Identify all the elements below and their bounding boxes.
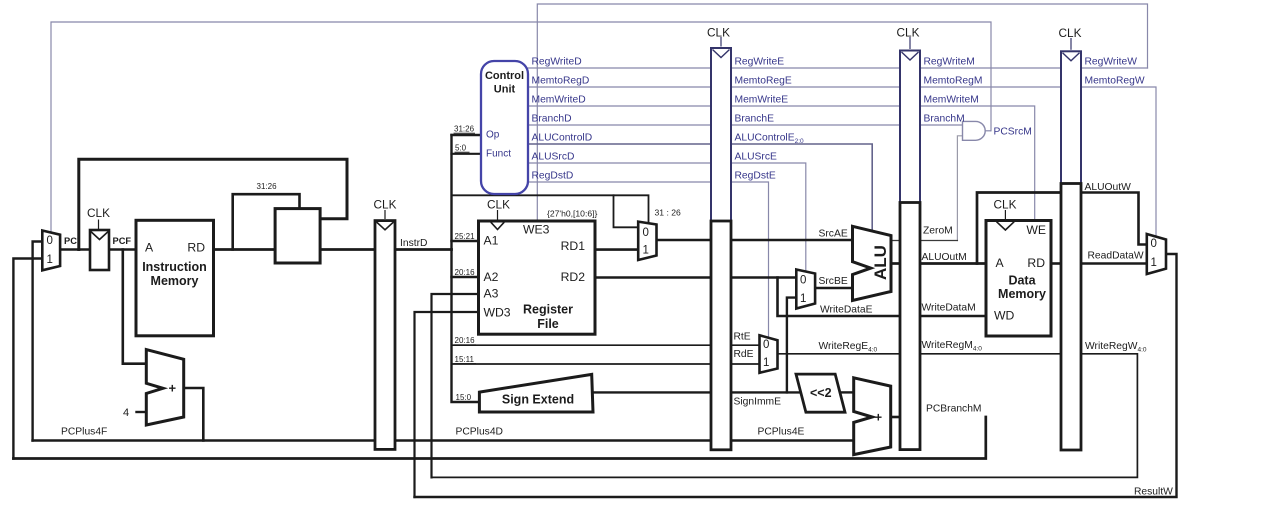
svg-text:MemtoRegM: MemtoRegM bbox=[924, 76, 983, 87]
svg-text:Funct: Funct bbox=[486, 149, 511, 160]
svg-text:Register: Register bbox=[523, 303, 573, 317]
svg-text:ALUOutM: ALUOutM bbox=[922, 252, 967, 263]
svg-text:1: 1 bbox=[800, 293, 806, 305]
wire PCBranchM long return bbox=[13, 417, 985, 459]
svg-text:15:11: 15:11 bbox=[455, 355, 475, 364]
svg-text:A1: A1 bbox=[484, 234, 499, 248]
wire BranchE bbox=[731, 124, 900, 126]
block Data Memory bbox=[986, 221, 1051, 337]
svg-text:PCF: PCF bbox=[113, 236, 132, 246]
svg-text:RtE: RtE bbox=[734, 332, 751, 343]
pipeline register EX/MEM control section bbox=[900, 51, 920, 203]
mux SrcB bbox=[796, 270, 815, 309]
svg-text:ALUControlE2:0: ALUControlE2:0 bbox=[735, 133, 805, 146]
wire InstrD bbox=[395, 248, 452, 251]
svg-text:ALUSrcD: ALUSrcD bbox=[532, 152, 575, 163]
svg-text:Instruction: Instruction bbox=[142, 260, 207, 274]
svg-text:MemWriteE: MemWriteE bbox=[735, 95, 789, 106]
wire ALUOutE bbox=[891, 262, 900, 265]
svg-text:<<2: <<2 bbox=[810, 386, 832, 400]
svg-text:20:16: 20:16 bbox=[455, 268, 476, 277]
svg-text:1: 1 bbox=[1151, 257, 1157, 269]
svg-text:CLK: CLK bbox=[487, 198, 510, 212]
wire ALUOutM to Data Memory A bbox=[920, 262, 986, 265]
svg-text:PCBranchM: PCBranchM bbox=[926, 404, 982, 415]
wire instruction to IF/ID register bbox=[320, 248, 375, 251]
svg-text:0: 0 bbox=[800, 275, 806, 287]
svg-text:MemtoRegW: MemtoRegW bbox=[1085, 76, 1145, 87]
adder PC plus 4 bbox=[146, 350, 183, 425]
svg-text:ReadDataW: ReadDataW bbox=[1088, 251, 1144, 262]
wire MemtoRegE bbox=[731, 86, 900, 88]
svg-text:0: 0 bbox=[47, 235, 53, 247]
pipeline register MEM/WB control section bbox=[1061, 51, 1081, 183]
block Control Unit bbox=[481, 61, 528, 194]
wire BranchM to AND gate bbox=[920, 124, 963, 126]
svg-text:4: 4 bbox=[123, 407, 129, 419]
svg-text:CLK: CLK bbox=[897, 26, 920, 40]
svg-text:Unit: Unit bbox=[494, 84, 516, 96]
wire branch adder output PCBranch bbox=[891, 416, 900, 419]
svg-text:RegWriteW: RegWriteW bbox=[1085, 57, 1138, 68]
wire MemtoRegD bbox=[528, 86, 711, 88]
wire RtE to RegDst mux input 0 bbox=[731, 344, 760, 346]
svg-text:Data: Data bbox=[1008, 274, 1036, 288]
svg-text:Memory: Memory bbox=[998, 287, 1046, 301]
wire WriteRegE bbox=[778, 353, 901, 355]
wire ReadDataW to result mux input 1 bbox=[1081, 262, 1147, 265]
shifter left 2 bbox=[796, 374, 845, 412]
svg-text:BranchM: BranchM bbox=[924, 114, 965, 125]
wire 31:26 slice loop bbox=[233, 194, 300, 249]
wire PCPlus4F to PC mux input 0 bbox=[33, 242, 43, 441]
svg-text:WE3: WE3 bbox=[523, 223, 550, 237]
wire shamt select line bbox=[452, 195, 649, 222]
wire A3 from WriteRegW riser bbox=[432, 294, 479, 477]
block Register File bbox=[479, 221, 596, 334]
svg-text:WD3: WD3 bbox=[484, 306, 511, 320]
wire WriteDataE tap bbox=[778, 278, 901, 317]
wire SrcBE from mux to ALU bbox=[815, 287, 852, 290]
svg-text:A3: A3 bbox=[484, 287, 499, 301]
svg-text:MemWriteM: MemWriteM bbox=[924, 95, 979, 106]
svg-text:31 : 26: 31 : 26 bbox=[655, 208, 682, 218]
block Sign Extend bbox=[479, 374, 593, 412]
mux RegDst bbox=[760, 335, 778, 373]
svg-text:ALUSrcE: ALUSrcE bbox=[735, 152, 777, 163]
wire RegWriteW top return (blue) bbox=[537, 4, 1147, 221]
svg-text:RegWriteM: RegWriteM bbox=[924, 57, 975, 68]
svg-text:1: 1 bbox=[643, 245, 649, 257]
pipeline register IF/ID bbox=[375, 221, 395, 450]
svg-text:1: 1 bbox=[763, 357, 769, 369]
pipeline register ID/EX control section bbox=[711, 48, 731, 221]
svg-text:WriteDataE: WriteDataE bbox=[820, 305, 873, 316]
svg-text:15:0: 15:0 bbox=[456, 393, 472, 402]
svg-text:SignImmE: SignImmE bbox=[734, 397, 782, 408]
wire ALUOutW to result mux input 0 bbox=[1081, 193, 1147, 245]
wire RD instruction from IM to slice register bbox=[214, 248, 276, 251]
wire RD2E to SrcB mux input 0 bbox=[731, 276, 796, 279]
wire ALUOutM riser to MEM/WB bbox=[977, 193, 1061, 264]
mux PC select bbox=[42, 231, 60, 271]
svg-text:ALU: ALU bbox=[871, 245, 890, 280]
adder branch bbox=[854, 378, 891, 455]
svg-text:RD1: RD1 bbox=[561, 239, 586, 253]
wire SignImmE riser to SrcB mux input 1 bbox=[787, 298, 796, 393]
svg-text:RegWriteD: RegWriteD bbox=[532, 57, 582, 68]
svg-text:CLK: CLK bbox=[707, 26, 730, 40]
svg-text:File: File bbox=[537, 317, 559, 331]
svg-text:31:26: 31:26 bbox=[257, 182, 278, 191]
svg-text:PCPlus4E: PCPlus4E bbox=[758, 427, 805, 438]
wire RdD 15:11 to ID/EX bbox=[452, 363, 712, 365]
wire PCF from PC register to Instruction Memory bbox=[109, 248, 136, 251]
wire adder output to PCPlus4F bbox=[184, 388, 204, 441]
svg-text:MemWriteD: MemWriteD bbox=[532, 95, 586, 106]
wire A2 20:16 bbox=[452, 276, 479, 278]
svg-text:WriteDataM: WriteDataM bbox=[922, 303, 976, 314]
svg-text:Op: Op bbox=[486, 130, 500, 141]
wire ALU zero out bbox=[891, 240, 900, 242]
register PC bbox=[90, 230, 109, 270]
svg-text:MemtoRegE: MemtoRegE bbox=[735, 76, 792, 87]
wire ALUControlD bbox=[528, 143, 711, 145]
wire ALUSrcE to SrcB mux select bbox=[731, 163, 806, 272]
wire fetch loop riser at PC' bbox=[79, 159, 347, 249]
svg-text:ResultW: ResultW bbox=[1134, 487, 1173, 498]
wire MemWriteD bbox=[528, 105, 711, 107]
wire RegWriteM bbox=[920, 67, 1061, 69]
svg-text:RD: RD bbox=[1027, 256, 1045, 270]
svg-text:SrcAE: SrcAE bbox=[819, 229, 848, 240]
svg-text:PC': PC' bbox=[64, 236, 79, 246]
wire RegWriteW bbox=[1081, 67, 1148, 69]
svg-text:0: 0 bbox=[1151, 238, 1157, 250]
wire RtD 20:16 to ID/EX bbox=[452, 344, 712, 346]
svg-text:A: A bbox=[996, 256, 1005, 270]
svg-text:PCSrcM: PCSrcM bbox=[994, 127, 1032, 138]
wire ALUControlE to ALU bbox=[731, 144, 872, 231]
wire Op to Control Unit bbox=[452, 134, 482, 136]
wire RegDstE to RegDst mux select bbox=[731, 182, 769, 338]
svg-text:PCPlus4F: PCPlus4F bbox=[61, 427, 107, 438]
svg-text:SrcBE: SrcBE bbox=[819, 276, 848, 287]
wire RegWriteE bbox=[731, 67, 900, 69]
svg-text:0: 0 bbox=[643, 227, 649, 239]
wire SignImmD bbox=[593, 391, 711, 393]
svg-text:ZeroM: ZeroM bbox=[923, 226, 953, 237]
wire WD3 from ResultW riser bbox=[415, 312, 479, 497]
wire RdE to RegDst mux input 1 bbox=[731, 363, 760, 365]
alu ALU bbox=[853, 226, 892, 300]
wire ALUSrcD bbox=[528, 162, 711, 164]
wire RD1 to shamt mux input 1 bbox=[595, 248, 638, 251]
wire SrcAE to ALU bbox=[731, 239, 853, 242]
wire constant 4 to adder bbox=[137, 411, 147, 413]
svg-text:WE: WE bbox=[1026, 223, 1046, 237]
svg-text:CLK: CLK bbox=[87, 206, 110, 220]
wire instruction bus vertical bbox=[452, 135, 480, 402]
pipeline register MEM/WB data section bbox=[1061, 184, 1081, 451]
svg-text:0: 0 bbox=[763, 339, 769, 351]
wire PCPlus4D bbox=[395, 439, 711, 442]
wire PCF tap to adder bbox=[123, 250, 147, 364]
wire MemtoRegM bbox=[920, 86, 1061, 88]
wire WriteDataM to Data Memory WD bbox=[920, 315, 986, 318]
pipeline register ID/EX data section bbox=[711, 221, 731, 450]
wire ZeroM riser to AND gate bbox=[957, 136, 962, 241]
wire MemWriteE bbox=[731, 105, 900, 107]
wire ReadDataM from Data Memory RD bbox=[1051, 262, 1061, 265]
svg-text:RegDstD: RegDstD bbox=[532, 171, 574, 182]
wire ResultW return bbox=[415, 254, 1177, 497]
svg-text:Sign Extend: Sign Extend bbox=[502, 393, 574, 407]
svg-text:CLK: CLK bbox=[994, 198, 1017, 212]
mux shamt bbox=[638, 222, 656, 260]
register slice box bbox=[275, 209, 320, 263]
wire PCBranchM to PC mux input 1 bbox=[13, 259, 42, 459]
wire Funct to Control Unit bbox=[452, 153, 482, 155]
svg-text:31:26: 31:26 bbox=[454, 125, 475, 134]
wire PCPlus4F bbox=[33, 439, 375, 442]
wire WriteRegM bbox=[920, 353, 1061, 355]
wire shift output to branch adder bbox=[841, 391, 854, 393]
svg-text:RegDstE: RegDstE bbox=[735, 171, 776, 182]
svg-text:RD: RD bbox=[187, 241, 205, 255]
svg-text:ALUOutW: ALUOutW bbox=[1085, 182, 1132, 193]
svg-text:CLK: CLK bbox=[1059, 26, 1082, 40]
mux result bbox=[1147, 234, 1166, 274]
block Instruction Memory bbox=[136, 220, 214, 335]
wire BranchD bbox=[528, 124, 711, 126]
wire PCSrcM top return (blue) bbox=[51, 22, 991, 231]
wire SignImmE bbox=[731, 391, 804, 393]
svg-text:WD: WD bbox=[994, 309, 1015, 323]
svg-text:1: 1 bbox=[47, 254, 53, 266]
svg-text:20:16: 20:16 bbox=[455, 336, 476, 345]
svg-text:RdE: RdE bbox=[734, 349, 754, 360]
wire shamt constant into mux input 0 bbox=[614, 195, 639, 227]
wire RegDstD bbox=[528, 181, 711, 183]
wire MemWriteM to Data Memory WE bbox=[920, 106, 1035, 221]
svg-text:BranchD: BranchD bbox=[532, 114, 572, 125]
wire A1 25:21 bbox=[452, 240, 479, 242]
wire PCPlus4E to branch adder bbox=[731, 439, 854, 442]
svg-text:InstrD: InstrD bbox=[400, 238, 427, 249]
wire MemtoRegW return to result mux bbox=[1081, 87, 1156, 236]
svg-text:MemtoRegD: MemtoRegD bbox=[532, 76, 590, 87]
svg-text:A: A bbox=[145, 241, 154, 255]
svg-text:CLK: CLK bbox=[374, 198, 397, 212]
wire RegWriteD bbox=[528, 67, 711, 69]
pipeline register EX/MEM data section bbox=[900, 203, 920, 450]
wire SrcA from shamt mux to ID/EX bbox=[657, 239, 712, 242]
svg-text:{27'h0,[10:6]}: {27'h0,[10:6]} bbox=[547, 209, 598, 219]
svg-text:Memory: Memory bbox=[151, 274, 199, 288]
svg-text:+: + bbox=[875, 410, 883, 425]
wire RD2 to ID/EX bbox=[595, 276, 711, 279]
svg-text:PCPlus4D: PCPlus4D bbox=[456, 427, 504, 438]
svg-text:5:0: 5:0 bbox=[455, 144, 467, 153]
wire ZeroM bbox=[920, 240, 957, 242]
svg-text:RegWriteE: RegWriteE bbox=[735, 57, 785, 68]
svg-text:25:21: 25:21 bbox=[455, 232, 476, 241]
svg-text:Control: Control bbox=[485, 70, 524, 82]
svg-text:A2: A2 bbox=[484, 270, 499, 284]
gate AND PCSrcM bbox=[963, 121, 986, 140]
svg-text:RD2: RD2 bbox=[561, 270, 586, 284]
svg-text:ALUControlD: ALUControlD bbox=[532, 133, 593, 144]
wire WriteRegW return bbox=[432, 354, 1138, 478]
wire PC' from mux to PC register bbox=[60, 248, 90, 251]
svg-text:BranchE: BranchE bbox=[735, 114, 775, 125]
svg-text:+: + bbox=[169, 381, 177, 396]
